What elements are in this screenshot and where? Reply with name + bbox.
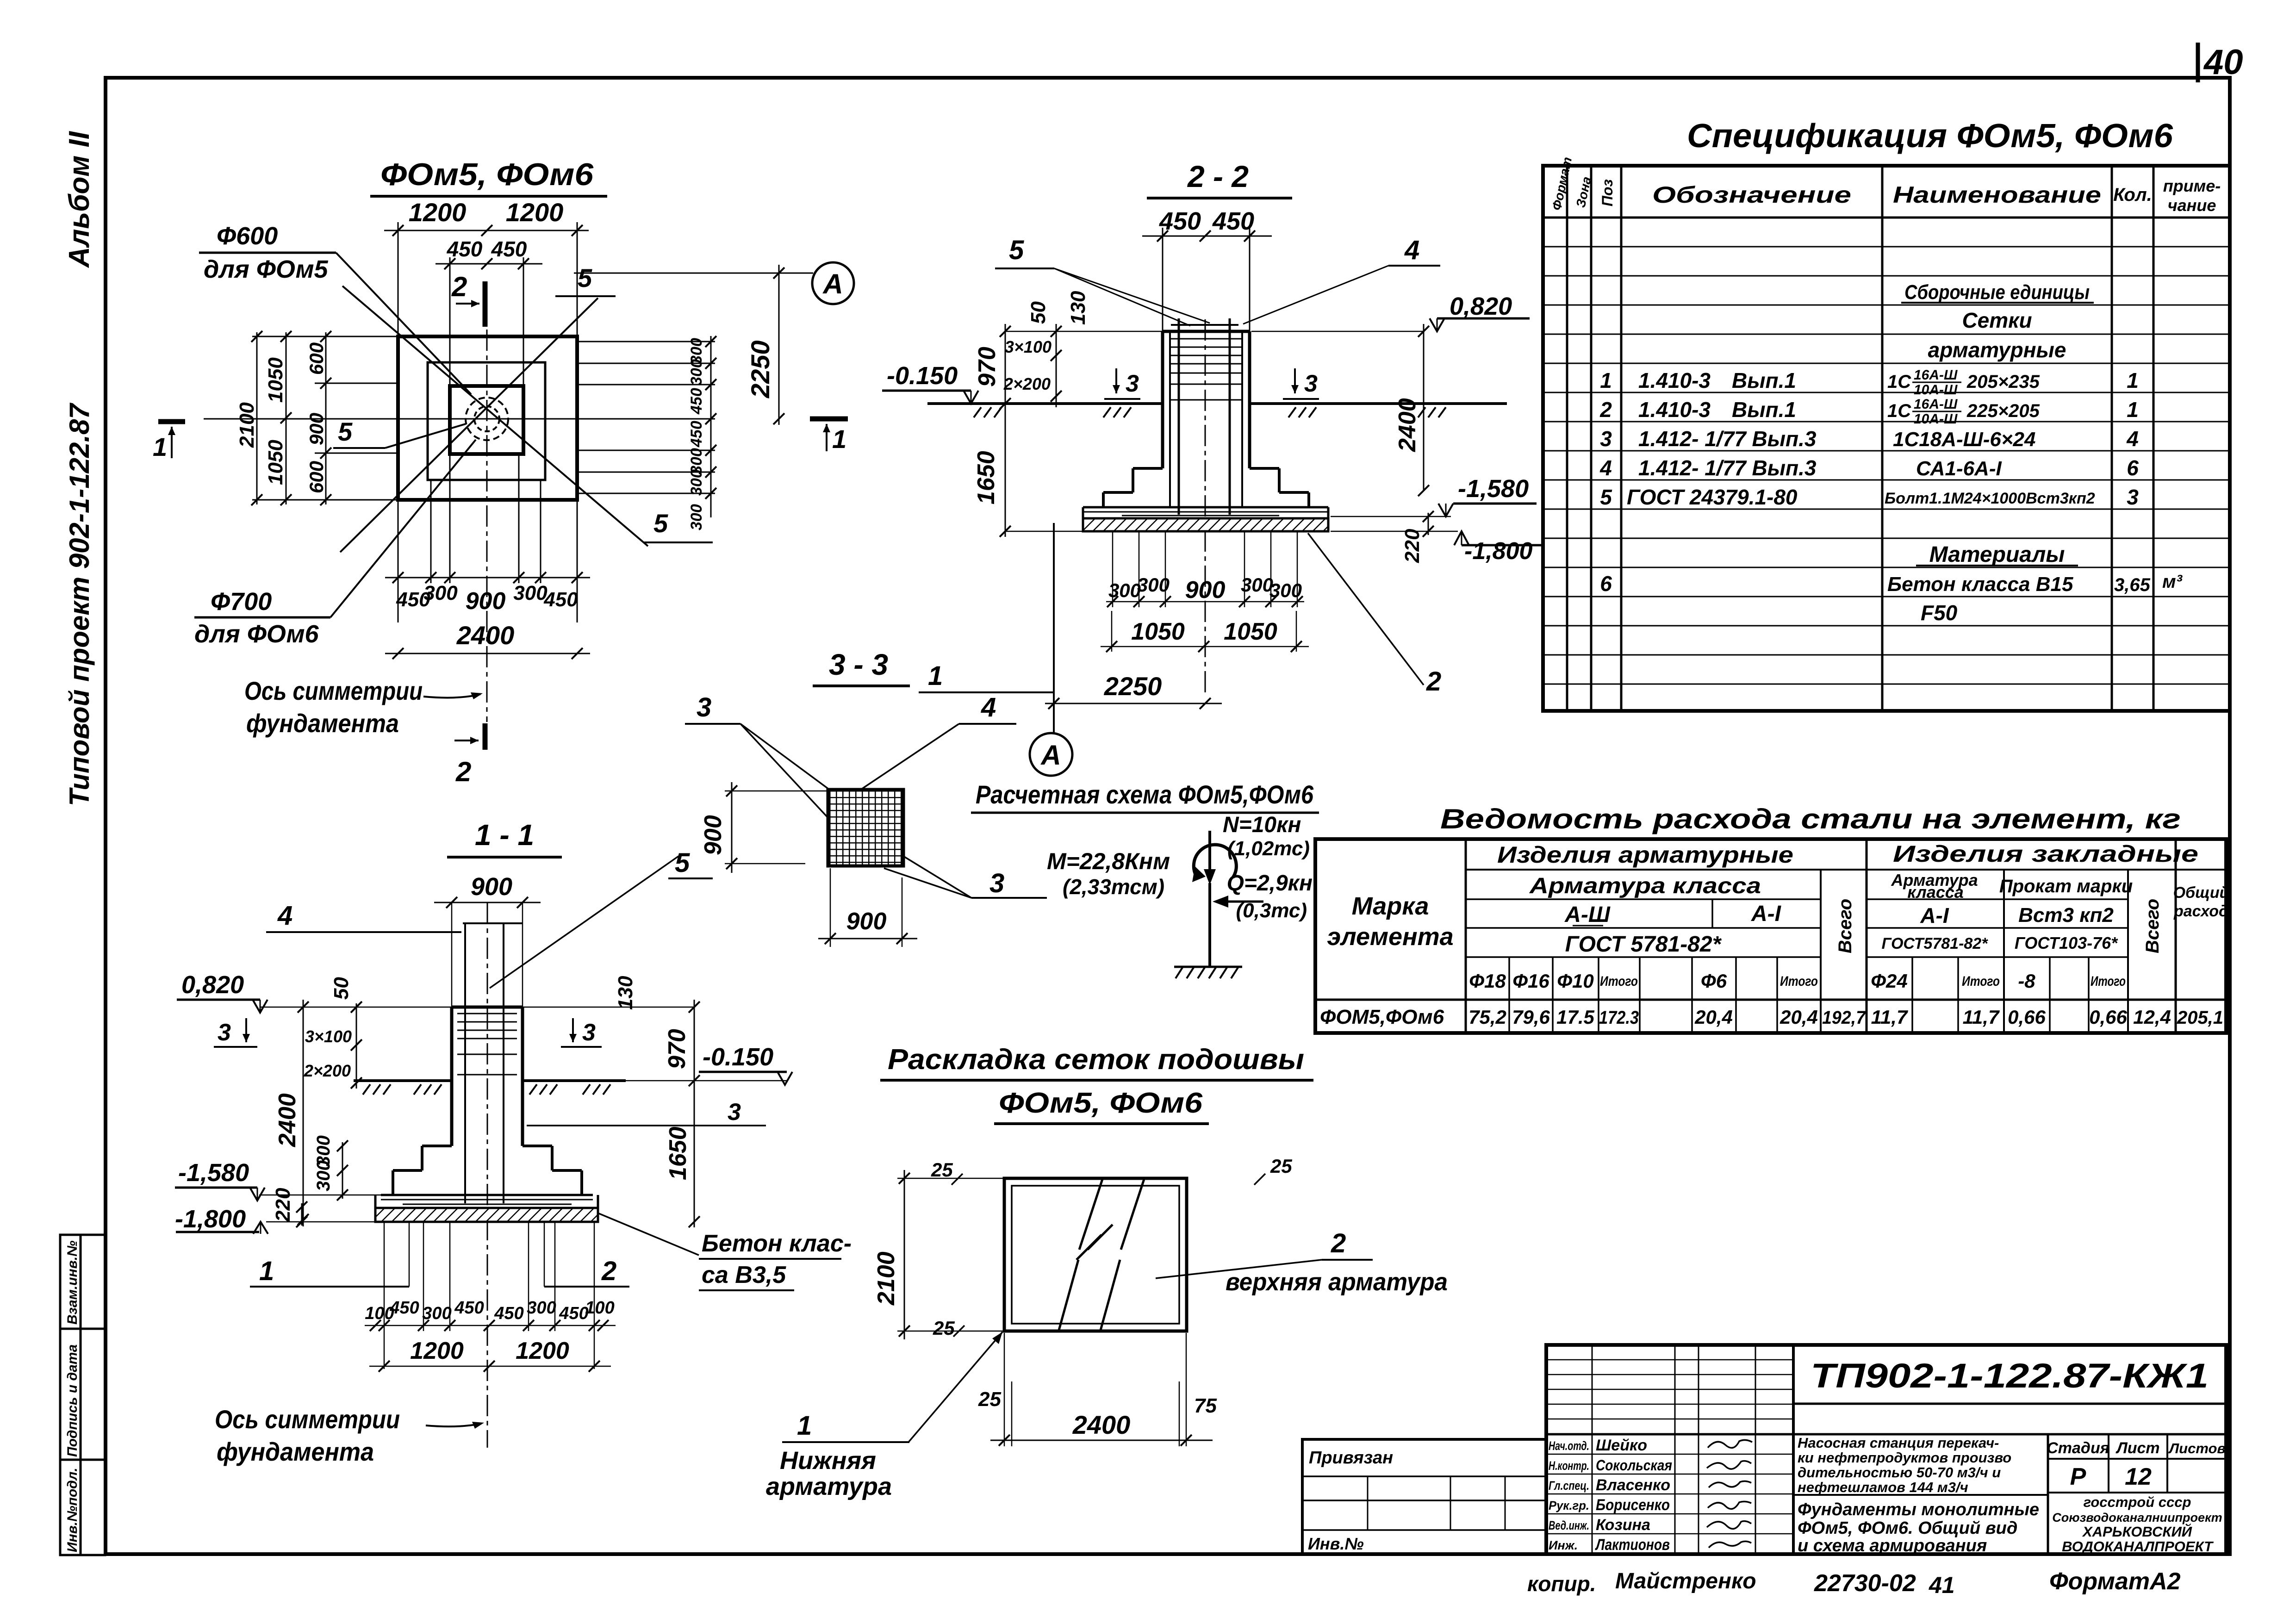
2-2 small dims 3x100 2x200 <box>1056 324 1057 407</box>
svg-text:арматурные: арматурные <box>1928 338 2066 362</box>
1-1 grillage <box>381 1194 593 1196</box>
svg-text:970: 970 <box>974 347 1001 387</box>
2-2 center axis <box>1205 319 1206 694</box>
svg-text:300: 300 <box>1269 579 1302 601</box>
svg-text:4: 4 <box>1404 235 1419 265</box>
svg-text:450: 450 <box>1159 207 1201 235</box>
2-2 base slab hatched <box>1083 518 1328 531</box>
svg-text:Типовой проект 902-1-122.87: Типовой проект 902-1-122.87 <box>64 403 95 806</box>
2-2 footing steps <box>1103 468 1309 507</box>
plan diagonal BL-TR <box>340 298 598 552</box>
svg-text:Шейко: Шейко <box>1596 1437 1647 1454</box>
svg-text:Ф24: Ф24 <box>1871 970 1908 992</box>
svg-text:Итого: Итого <box>2091 974 2126 989</box>
rebar lines right <box>579 336 715 517</box>
2-2 top dim 450 450 <box>1142 228 1272 331</box>
svg-text:Сборочные единицы: Сборочные единицы <box>1904 281 2090 304</box>
calc moment arc <box>1194 845 1236 878</box>
svg-text:М=22,8Кнм: М=22,8Кнм <box>1047 848 1170 874</box>
svg-text:Фундаменты монолитные: Фундаменты монолитные <box>1798 1500 2039 1519</box>
svg-text:Ось симметрии: Ось симметрии <box>215 1405 400 1434</box>
svg-text:3 - 3: 3 - 3 <box>829 648 888 681</box>
svg-text:450: 450 <box>688 421 705 448</box>
svg-text:0,66: 0,66 <box>2008 1006 2046 1028</box>
svg-text:11,7: 11,7 <box>1871 1006 1908 1028</box>
2-2 level 0,820 <box>1251 331 1423 332</box>
svg-text:-8: -8 <box>2018 970 2035 992</box>
dim 2250 vertical <box>574 273 813 274</box>
svg-text:Союзводоканалниипроект: Союзводоканалниипроект <box>2052 1511 2222 1524</box>
svg-text:1С: 1С <box>1887 401 1911 421</box>
layout bottom dim 2400 <box>1004 1333 1186 1446</box>
svg-text:300: 300 <box>1137 574 1170 596</box>
svg-text:приме-: приме- <box>2163 176 2221 195</box>
3-3 mesh square <box>828 790 903 866</box>
svg-text:10А-Ш: 10А-Ш <box>1914 382 1958 398</box>
svg-text:5: 5 <box>578 263 592 292</box>
svg-text:Борисенко: Борисенко <box>1596 1496 1670 1514</box>
svg-text:2: 2 <box>455 756 471 787</box>
3-3 bottom dim 900 <box>830 868 831 947</box>
2-2 grillage <box>1083 506 1328 509</box>
svg-text:ТП902-1-122.87-КЖ1: ТП902-1-122.87-КЖ1 <box>1811 1356 2209 1395</box>
1-1 base slab hatched <box>375 1208 598 1222</box>
svg-text:для ФОм5: для ФОм5 <box>204 255 329 283</box>
svg-text:300: 300 <box>422 1304 451 1323</box>
svg-text:1: 1 <box>259 1256 274 1286</box>
svg-text:А-Ш: А-Ш <box>1564 902 1611 927</box>
svg-text:и схема армирования: и схема армирования <box>1798 1536 1987 1556</box>
1-1 dim 220 <box>301 1203 303 1226</box>
svg-text:Болт1.1М24×1000Вст3кп2: Болт1.1М24×1000Вст3кп2 <box>1885 490 2095 507</box>
svg-text:3: 3 <box>218 1019 231 1046</box>
svg-text:А-I: А-I <box>1920 903 1949 927</box>
svg-text:225×205: 225×205 <box>1966 401 2040 421</box>
svg-text:300: 300 <box>1108 579 1141 601</box>
1-1 leader 3 lower right <box>527 1125 766 1126</box>
svg-text:Наименование: Наименование <box>1893 182 2101 208</box>
svg-text:ФОМ5,ФОм6: ФОМ5,ФОм6 <box>1320 1006 1444 1028</box>
svg-text:1С18А-Ш-6×24: 1С18А-Ш-6×24 <box>1893 428 2035 451</box>
2-2 level -1.580 <box>1331 516 1451 517</box>
svg-text:17.5: 17.5 <box>1556 1006 1594 1028</box>
dim 2400 bottom <box>385 653 590 654</box>
svg-text:Поз: Поз <box>1599 179 1616 206</box>
svg-text:4: 4 <box>277 901 292 931</box>
svg-text:1: 1 <box>797 1411 812 1441</box>
svg-text:1200: 1200 <box>506 198 564 227</box>
svg-text:Изделия закладные: Изделия закладные <box>1893 841 2198 867</box>
plan center lines <box>486 330 488 722</box>
title block signatures <box>1707 1440 1752 1548</box>
svg-text:Вст3 кп2: Вст3 кп2 <box>2018 904 2114 927</box>
svg-text:300: 300 <box>423 582 458 604</box>
svg-text:Обозначение: Обозначение <box>1652 182 1851 208</box>
svg-text:Ф10: Ф10 <box>1557 970 1594 992</box>
plan inner square <box>450 386 523 454</box>
svg-text:300: 300 <box>527 1298 556 1318</box>
2-2 marker 3 left <box>1115 368 1117 393</box>
svg-text:20,4: 20,4 <box>1780 1006 1818 1028</box>
svg-text:-1,800: -1,800 <box>175 1205 246 1233</box>
svg-text:ВОДОКАНАЛПРОЕКТ: ВОДОКАНАЛПРОЕКТ <box>2062 1538 2214 1555</box>
1-1 marker 3 right <box>572 1018 574 1042</box>
svg-text:450: 450 <box>1212 207 1254 235</box>
svg-text:ФорматА2: ФорматА2 <box>2049 1568 2181 1595</box>
svg-text:100: 100 <box>585 1298 614 1318</box>
1-1 column <box>452 1007 523 1146</box>
svg-text:1С: 1С <box>1887 372 1911 392</box>
svg-text:Н.контр.: Н.контр. <box>1549 1459 1589 1473</box>
2-2 dim 2250 <box>1045 703 1222 704</box>
svg-text:Ось симметрии: Ось симметрии <box>244 676 423 705</box>
sidebar bottom boxes <box>60 1235 105 1555</box>
svg-text:1.410-3 Вып.1: 1.410-3 Вып.1 <box>1638 398 1796 422</box>
svg-text:600: 600 <box>305 461 327 493</box>
svg-text:600: 600 <box>305 342 327 375</box>
1-1 dims 300 300 steps <box>342 1142 343 1199</box>
title block left grid <box>1546 1360 1793 1534</box>
svg-text:172.3: 172.3 <box>1599 1008 1639 1028</box>
svg-text:2: 2 <box>1426 666 1441 697</box>
svg-text:300: 300 <box>688 504 705 530</box>
sheet number 40 <box>2196 43 2200 82</box>
svg-text:220: 220 <box>272 1188 294 1222</box>
svg-text:ГОСТ 5781-82*: ГОСТ 5781-82* <box>1565 932 1722 957</box>
1-1 rebar verticals <box>464 923 466 1203</box>
svg-text:ГОСТ 24379.1-80: ГОСТ 24379.1-80 <box>1627 485 1798 509</box>
svg-text:1050: 1050 <box>264 357 287 403</box>
1-1 center axis <box>487 902 488 1448</box>
svg-text:Взам.инв.№: Взам.инв.№ <box>65 1241 80 1325</box>
svg-text:300: 300 <box>513 582 548 604</box>
svg-text:1650: 1650 <box>665 1126 691 1180</box>
2-2 level -1.800 <box>1331 531 1458 532</box>
svg-text:Итого: Итого <box>1780 974 1818 989</box>
svg-text:Материалы: Материалы <box>1929 542 2065 567</box>
svg-text:2×200: 2×200 <box>304 1061 351 1080</box>
svg-text:Рук.гр.: Рук.гр. <box>1549 1499 1589 1512</box>
svg-text:3: 3 <box>1304 370 1318 397</box>
svg-text:25: 25 <box>933 1317 955 1339</box>
svg-text:СА1-6А-I: СА1-6А-I <box>1916 457 2002 480</box>
svg-text:дительностью 50-70 м3/ч и: дительностью 50-70 м3/ч и <box>1798 1464 2001 1481</box>
bottom dims 450 300 900 300 450 <box>385 454 590 622</box>
svg-text:-1,580: -1,580 <box>178 1159 249 1187</box>
calc N load arrow <box>1208 831 1211 879</box>
specification table grid <box>1543 166 2230 711</box>
svg-text:900: 900 <box>471 873 512 901</box>
layout dim 2100 left <box>897 1178 1004 1179</box>
2-2 dim 1050 1050 <box>1101 611 1309 652</box>
1-1 footing steps <box>393 1146 582 1195</box>
svg-text:Спецификация ФОм5, ФОм6: Спецификация ФОм5, ФОм6 <box>1687 118 2173 155</box>
svg-text:2: 2 <box>601 1256 616 1286</box>
1-1 right chain 970 1650 <box>694 1000 695 1227</box>
svg-text:5: 5 <box>653 509 668 538</box>
1-1 stirrups <box>457 1014 517 1075</box>
svg-text:50: 50 <box>1027 301 1050 324</box>
svg-text:3: 3 <box>582 1019 596 1046</box>
svg-text:79,6: 79,6 <box>1512 1006 1550 1028</box>
svg-text:Нижняя: Нижняя <box>780 1447 876 1475</box>
svg-text:1: 1 <box>928 661 943 691</box>
2-2 column rebar <box>1169 331 1171 507</box>
plan outer square <box>398 336 577 500</box>
svg-text:10А-Ш: 10А-Ш <box>1914 411 1958 427</box>
svg-text:300: 300 <box>688 359 705 386</box>
svg-text:1650: 1650 <box>973 451 1000 504</box>
layout diagonal bars with break <box>1079 1179 1102 1250</box>
svg-text:Всего: Всего <box>1835 899 1855 953</box>
svg-text:Гл.спец.: Гл.спец. <box>1549 1479 1589 1493</box>
svg-text:чание: чание <box>2168 196 2216 215</box>
svg-text:N=10кн: N=10кн <box>1223 813 1301 837</box>
plan diagonal TL-BR <box>342 286 648 546</box>
svg-text:Ведомость расхода стали на: Ведомость расхода стали на элемент, кг <box>1440 803 2181 834</box>
svg-text:са В3,5: са В3,5 <box>702 1262 786 1288</box>
svg-text:Ф600: Ф600 <box>217 222 278 250</box>
svg-text:Ф700: Ф700 <box>211 588 272 616</box>
svg-text:0,820: 0,820 <box>181 971 244 999</box>
svg-text:3: 3 <box>989 868 1004 898</box>
svg-text:2250: 2250 <box>746 340 775 398</box>
1-1 level -1.800 <box>253 1222 268 1234</box>
svg-text:16А-Ш: 16А-Ш <box>1914 367 1958 383</box>
svg-text:1050: 1050 <box>1131 618 1185 645</box>
1-1 small dims 3x100 2x200 <box>356 1003 357 1089</box>
svg-text:А: А <box>822 268 843 299</box>
svg-text:1: 1 <box>832 424 846 454</box>
svg-text:6: 6 <box>1600 572 1612 596</box>
1-1 left chain 2400 <box>303 1000 304 1226</box>
svg-text:Бетон клас-: Бетон клас- <box>702 1230 852 1257</box>
svg-text:970: 970 <box>664 1029 691 1069</box>
svg-text:4: 4 <box>981 692 996 722</box>
axis circle A <box>812 262 854 304</box>
svg-text:4: 4 <box>2126 427 2139 451</box>
svg-text:6: 6 <box>2127 456 2139 480</box>
svg-text:копир.: копир. <box>1527 1572 1596 1596</box>
1-1 level -0.150 right <box>626 1080 787 1082</box>
svg-text:41: 41 <box>1929 1572 1955 1598</box>
svg-text:3: 3 <box>697 692 711 722</box>
title block outer <box>1546 1345 2226 1554</box>
svg-text:1200: 1200 <box>409 198 467 227</box>
2-2 stirrups <box>1170 339 1242 400</box>
2-2 ground line <box>927 402 1163 405</box>
2-2 left dim chain 970/1650 <box>1005 324 1006 537</box>
svg-text:130: 130 <box>614 976 637 1010</box>
svg-text:ХАРЬКОВСКИЙ: ХАРЬКОВСКИЙ <box>2082 1523 2192 1540</box>
svg-text:4: 4 <box>1599 456 1612 480</box>
svg-text:300: 300 <box>313 1160 334 1191</box>
svg-text:0,820: 0,820 <box>1450 292 1512 320</box>
svg-text:450: 450 <box>494 1304 523 1323</box>
svg-text:2250: 2250 <box>1104 672 1162 701</box>
svg-text:3: 3 <box>1126 370 1139 397</box>
svg-text:12: 12 <box>2125 1463 2152 1490</box>
svg-text:Прокат марки: Прокат марки <box>1999 876 2133 896</box>
svg-text:450: 450 <box>447 237 483 261</box>
layout square <box>1004 1178 1187 1331</box>
calc column <box>1208 883 1211 967</box>
svg-text:Нач.отд.: Нач.отд. <box>1549 1439 1589 1453</box>
svg-text:0,66: 0,66 <box>2089 1006 2127 1028</box>
svg-text:2100: 2100 <box>236 402 258 448</box>
svg-text:5: 5 <box>1600 485 1612 509</box>
svg-text:Козина: Козина <box>1596 1516 1650 1534</box>
svg-text:5: 5 <box>338 417 353 446</box>
svg-text:класса: класса <box>1907 883 1964 902</box>
svg-text:3×100: 3×100 <box>1005 337 1052 356</box>
svg-text:фундамента: фундамента <box>246 709 399 738</box>
svg-text:Всего: Всего <box>2142 899 2163 953</box>
svg-text:3: 3 <box>2127 485 2139 509</box>
svg-text:ГОСТ5781-82*: ГОСТ5781-82* <box>1882 935 1989 952</box>
svg-text:2400: 2400 <box>274 1093 301 1147</box>
svg-text:ГОСТ103-76*: ГОСТ103-76* <box>2015 933 2118 952</box>
svg-text:900: 900 <box>466 588 506 615</box>
svg-text:300: 300 <box>1241 574 1273 596</box>
svg-text:75: 75 <box>1194 1394 1217 1417</box>
svg-text:25: 25 <box>978 1388 1001 1411</box>
calc Q arrow <box>1219 901 1263 903</box>
svg-text:1.412- 1/77 Вып.3: 1.412- 1/77 Вып.3 <box>1638 456 1817 480</box>
svg-text:192,7: 192,7 <box>1822 1008 1867 1028</box>
svg-text:Стадия: Стадия <box>2047 1439 2109 1457</box>
svg-text:1: 1 <box>1600 368 1612 392</box>
svg-text:1050: 1050 <box>1224 618 1277 645</box>
svg-text:Майстренко: Майстренко <box>1615 1569 1756 1593</box>
svg-text:Лактионов: Лактионов <box>1595 1536 1670 1554</box>
svg-text:1: 1 <box>153 432 167 461</box>
1-1 ground line <box>354 1079 452 1082</box>
svg-text:-0.150: -0.150 <box>887 362 958 390</box>
privyazan box <box>1302 1439 1546 1554</box>
svg-text:130: 130 <box>1067 291 1089 325</box>
svg-text:фундамента: фундамента <box>217 1437 374 1466</box>
3-3 left dim 900 <box>725 790 828 792</box>
svg-text:50: 50 <box>330 977 353 1000</box>
svg-text:2×200: 2×200 <box>1003 374 1051 393</box>
svg-text:Власенко: Власенко <box>1596 1476 1670 1494</box>
layout leader 1 нижняя арматура <box>908 1332 1002 1442</box>
svg-text:450: 450 <box>454 1298 484 1318</box>
svg-text:Итого: Итого <box>1600 974 1638 989</box>
svg-text:Q=2,9кн: Q=2,9кн <box>1227 871 1313 896</box>
svg-text:Сетки: Сетки <box>1962 308 2032 332</box>
svg-text:450: 450 <box>688 388 705 415</box>
plan anchor circle dashed <box>466 398 508 440</box>
svg-text:22730-02: 22730-02 <box>1814 1570 1916 1597</box>
2-2 anchor bolts <box>1178 318 1180 515</box>
svg-text:300: 300 <box>688 469 705 496</box>
svg-text:25: 25 <box>931 1159 953 1181</box>
svg-text:Раскладка сеток подошвы: Раскладка сеток подошвы <box>888 1044 1304 1076</box>
svg-text:450: 450 <box>491 237 527 261</box>
svg-text:Альбом II: Альбом II <box>63 131 95 268</box>
svg-text:450: 450 <box>389 1298 419 1318</box>
svg-text:25: 25 <box>1270 1155 1292 1177</box>
svg-text:450: 450 <box>559 1304 588 1323</box>
right dim chain ticks <box>705 336 716 499</box>
steel table grid <box>1315 839 2226 1033</box>
2-2 axis A line <box>1053 523 1055 732</box>
svg-text:3: 3 <box>1600 427 1612 451</box>
svg-text:900: 900 <box>700 815 727 855</box>
svg-text:2100: 2100 <box>873 1251 900 1306</box>
svg-text:-1,800: -1,800 <box>1464 538 1533 565</box>
section marker 2 bottom <box>483 723 488 750</box>
svg-text:40: 40 <box>2203 43 2243 82</box>
2-2 axis circle A <box>1030 733 1072 776</box>
svg-text:900: 900 <box>846 908 887 935</box>
svg-text:ФОм5, ФОм6: ФОм5, ФОм6 <box>380 157 594 192</box>
svg-text:(2,33тсм): (2,33тсм) <box>1063 875 1164 899</box>
svg-text:Листов: Листов <box>2168 1440 2226 1456</box>
svg-text:11,7: 11,7 <box>1963 1006 2000 1028</box>
svg-text:Ф18: Ф18 <box>1469 970 1506 992</box>
svg-text:(0,3тс): (0,3тс) <box>1236 899 1307 922</box>
2-2 right chain 2400 <box>1423 324 1425 491</box>
top dim 1200 1200 <box>384 222 589 336</box>
svg-text:2: 2 <box>1599 398 1612 422</box>
svg-text:900: 900 <box>305 413 327 445</box>
svg-text:Вед.инж.: Вед.инж. <box>1549 1518 1589 1532</box>
svg-text:Привязан: Привязан <box>1309 1448 1393 1468</box>
svg-text:1200: 1200 <box>410 1338 464 1364</box>
svg-text:1: 1 <box>2127 368 2139 392</box>
section marker 1 right <box>810 417 848 422</box>
svg-text:элемента: элемента <box>1327 923 1453 951</box>
svg-text:1.410-3 Вып.1: 1.410-3 Вып.1 <box>1638 368 1796 392</box>
svg-text:верхняя арматура: верхняя арматура <box>1226 1268 1448 1296</box>
svg-text:20,4: 20,4 <box>1694 1006 1733 1028</box>
svg-text:2400: 2400 <box>456 621 515 650</box>
svg-text:Бетон класса В15: Бетон класса В15 <box>1887 573 2073 596</box>
svg-text:Подпись и дата: Подпись и дата <box>65 1344 80 1457</box>
svg-text:1: 1 <box>2127 398 2139 422</box>
svg-text:1.412- 1/77 Вып.3: 1.412- 1/77 Вып.3 <box>1638 427 1817 451</box>
svg-text:А-I: А-I <box>1751 902 1782 926</box>
svg-text:Лист: Лист <box>2115 1439 2159 1457</box>
svg-text:расход: расход <box>2173 902 2228 920</box>
svg-text:А: А <box>1040 740 1061 771</box>
svg-text:(1,02тс): (1,02тс) <box>1227 837 1310 860</box>
svg-text:Итого: Итого <box>1962 974 2000 989</box>
svg-text:450: 450 <box>543 588 578 611</box>
svg-text:1 - 1: 1 - 1 <box>475 818 534 852</box>
1-1 dim 1200 1200 <box>369 1366 611 1367</box>
svg-text:арматура: арматура <box>766 1473 892 1500</box>
svg-text:5: 5 <box>675 848 690 878</box>
svg-text:2: 2 <box>451 271 467 302</box>
calc ground <box>1174 966 1242 968</box>
svg-text:м³: м³ <box>2162 572 2183 592</box>
svg-text:ки нефтепродуктов произво: ки нефтепродуктов произво <box>1798 1450 2011 1466</box>
svg-text:Ф6: Ф6 <box>1701 970 1727 992</box>
svg-text:3,65: 3,65 <box>2114 575 2151 595</box>
svg-text:-1,580: -1,580 <box>1458 475 1529 503</box>
2-2 marker 3 right <box>1294 368 1296 393</box>
svg-text:Инв.№подл.: Инв.№подл. <box>65 1468 80 1552</box>
svg-text:3: 3 <box>728 1099 741 1126</box>
2-2 bottom ext lines + dims 300 300 900 300 300 <box>1106 531 1304 607</box>
svg-text:Марка: Марка <box>1352 892 1429 920</box>
2-2 column <box>1163 331 1250 468</box>
2-2 dim 220 <box>1428 513 1429 535</box>
